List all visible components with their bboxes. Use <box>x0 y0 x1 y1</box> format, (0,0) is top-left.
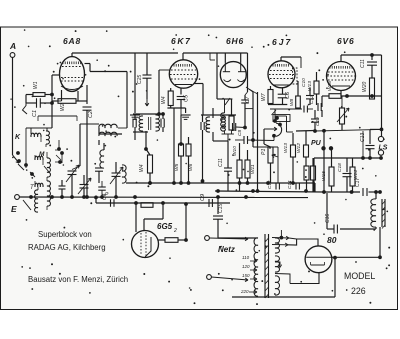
wire x52 vertical <box>51 75 53 128</box>
capacitor C5 <box>180 88 182 95</box>
core hatching <box>265 238 269 242</box>
svg-text:C14: C14 <box>287 180 292 189</box>
terminal LS1 <box>378 136 383 141</box>
svg-text:6K7: 6K7 <box>171 36 191 46</box>
resistor W11m <box>245 160 250 178</box>
tube 80 <box>305 246 332 273</box>
capacitor C11m <box>227 145 229 168</box>
svg-text:W11: W11 <box>250 164 256 174</box>
wire 6V6 top <box>340 55 342 62</box>
svg-text:C5: C5 <box>184 94 190 102</box>
svg-text:6A8: 6A8 <box>63 36 81 46</box>
volume pot P1 <box>268 147 273 163</box>
transformer sec1 <box>275 238 280 253</box>
svg-text:MODEL: MODEL <box>344 271 375 281</box>
wire bus E y197 <box>20 196 309 199</box>
svg-text:6H6: 6H6 <box>226 36 244 46</box>
wire 6H6 bottom U <box>217 98 232 100</box>
svg-text:C6: C6 <box>285 91 291 99</box>
svg-text:110: 110 <box>242 255 250 260</box>
switch 6H6 <box>225 98 230 105</box>
IF2 cap right <box>232 123 234 131</box>
svg-text:P1: P1 <box>261 149 267 155</box>
wire ls stub <box>380 155 382 158</box>
coil L1b <box>46 128 48 131</box>
wire 6J7 top cap <box>280 57 282 61</box>
svg-text:C10: C10 <box>301 78 307 87</box>
svg-text:C12: C12 <box>309 95 315 104</box>
capacitor C9 <box>110 199 112 207</box>
variable capacitor CV1b <box>80 184 89 186</box>
capacitor C13m <box>275 183 277 190</box>
wire diode bottoms <box>224 131 226 134</box>
capacitor C16 <box>375 227 377 229</box>
svg-text:6J7: 6J7 <box>272 37 292 47</box>
wire y147 <box>253 146 278 148</box>
capacitor C11 <box>371 55 373 60</box>
capacitor C12 <box>317 103 319 111</box>
wire IF2 right down <box>212 132 214 141</box>
choke core <box>381 199 383 227</box>
svg-text:W14: W14 <box>353 170 359 180</box>
resistor W4k <box>170 88 172 91</box>
svg-text:C11: C11 <box>218 158 224 167</box>
coil L2a <box>35 156 43 160</box>
osc coil b <box>99 132 117 136</box>
svg-text:W12: W12 <box>296 143 302 153</box>
switch at E <box>23 200 31 210</box>
svg-text:W8: W8 <box>289 98 295 106</box>
transformer primary <box>254 238 258 296</box>
svg-text:150: 150 <box>242 273 250 278</box>
junction dots extra <box>149 182 152 185</box>
PU terminals <box>322 147 325 150</box>
coil L1a <box>26 127 52 129</box>
resistor W13j <box>316 72 318 81</box>
wire choke down <box>379 227 381 257</box>
capacitor C7 <box>245 92 248 95</box>
wire bus right y192 <box>324 191 360 193</box>
IF1 coil left <box>139 116 143 131</box>
tube 6V6 <box>327 62 356 91</box>
terminal Netz1 <box>205 236 210 241</box>
svg-text:C7: C7 <box>245 96 251 103</box>
capacitor C2 <box>86 85 88 104</box>
svg-text:C18: C18 <box>337 163 343 172</box>
wire 6K7 screen <box>194 83 203 85</box>
IF1 cap left <box>132 119 134 128</box>
capacitor C10 <box>306 95 314 97</box>
resistor W7 <box>270 86 272 90</box>
IF2 frame <box>201 114 236 116</box>
switch ticks <box>44 166 49 172</box>
IF1 core <box>148 117 150 130</box>
osc coil a <box>99 124 117 128</box>
wire x59 vert <box>58 140 60 150</box>
sec feed stub <box>280 230 282 237</box>
wire 6K7 top cap <box>182 53 184 60</box>
band switch contacts <box>17 152 20 155</box>
terminal LS2 <box>378 150 383 155</box>
svg-text:C2: C2 <box>88 111 94 118</box>
junction dots bus <box>30 196 33 199</box>
wire top rail y124 <box>80 123 99 125</box>
svg-text:226: 226 <box>351 286 366 296</box>
osc coil c <box>100 150 104 168</box>
wire bus3 y203 <box>96 202 230 204</box>
trimmer cap <box>59 185 66 187</box>
svg-text:Bausatz von F. Menzi, Zürich: Bausatz von F. Menzi, Zürich <box>28 275 128 284</box>
resistor W16 <box>329 94 341 99</box>
wire to LS node <box>315 129 382 131</box>
tube 6A8 <box>60 57 85 92</box>
choke coil <box>371 199 376 227</box>
wire M links <box>55 149 59 151</box>
transformer sec2 <box>275 256 280 272</box>
wire 6A8 grid2 <box>85 63 91 65</box>
wire 6K7 cath down <box>173 108 175 183</box>
svg-text:C11: C11 <box>360 59 366 68</box>
svg-text:W5: W5 <box>174 163 180 171</box>
wire 80 plate right <box>332 256 380 258</box>
svg-text:W1: W1 <box>33 81 39 89</box>
padder cap <box>95 167 103 169</box>
svg-text:W15: W15 <box>321 171 327 181</box>
svg-text:PU: PU <box>311 140 322 147</box>
variable capacitor CV2 <box>112 172 121 174</box>
wire 80 heater <box>290 273 319 284</box>
svg-text:2: 2 <box>173 228 177 234</box>
svg-text:A: A <box>9 41 16 51</box>
switch wiper antenna <box>13 155 20 163</box>
capacitor Cp <box>98 186 106 188</box>
capacitor Ck <box>303 106 305 113</box>
capacitor C13 <box>370 128 382 130</box>
IF2 coil left <box>206 117 210 132</box>
wire 6G5 right <box>185 204 187 240</box>
vertical ground x135 <box>134 53 136 113</box>
wire IF2 bottoms <box>180 115 182 144</box>
resistor W12 <box>304 145 309 157</box>
capacitor Cavc <box>243 136 245 144</box>
ground g2 <box>181 114 191 116</box>
svg-text:LS: LS <box>379 145 388 152</box>
svg-text:C1: C1 <box>32 110 38 117</box>
resistor W10 <box>141 203 153 208</box>
svg-text:C16: C16 <box>325 214 331 223</box>
svg-text:6V6: 6V6 <box>337 36 355 46</box>
wire 6A8 plate top <box>71 53 73 57</box>
capacitor C25 <box>146 53 148 75</box>
wire osc joins <box>99 133 122 135</box>
wire 6G5 grid <box>135 203 137 232</box>
wire pu node <box>314 130 317 133</box>
coil L3b <box>47 181 50 206</box>
wire K rail up <box>25 128 27 140</box>
IF1 cap right <box>160 119 162 128</box>
variable capacitor CV1 <box>68 170 77 172</box>
svg-text:220: 220 <box>240 289 249 294</box>
tube 6J7 <box>268 61 295 88</box>
svg-text:W2: W2 <box>60 103 66 111</box>
capacitor C15 <box>217 197 219 214</box>
resistor W4 <box>148 155 153 173</box>
capacitor C8 <box>208 199 210 207</box>
svg-text:Superblock von: Superblock von <box>38 230 92 239</box>
wire IF1 left down <box>134 132 136 140</box>
svg-text:W16: W16 <box>327 81 333 91</box>
sec heater wire <box>275 274 290 284</box>
tube 6K7 <box>169 60 197 88</box>
IF2 cap left <box>200 122 202 130</box>
osc coil d <box>122 165 126 183</box>
wire bus mid y191 <box>215 191 324 192</box>
tone pot <box>340 108 345 124</box>
wire top bus 6k7-6h6 <box>183 52 248 54</box>
sec 6v tap <box>275 262 280 265</box>
resistor W14 <box>352 158 354 167</box>
svg-text:80: 80 <box>327 235 337 245</box>
ground g1 <box>130 114 140 116</box>
wire 6G5 feed <box>162 202 165 205</box>
wire cluster top y158 <box>314 157 381 159</box>
wire antenna down <box>12 58 14 156</box>
svg-text:W4: W4 <box>161 96 167 104</box>
resistor W10m <box>237 160 242 178</box>
capacitor C14m <box>295 183 297 190</box>
capacitor C19 <box>311 118 319 120</box>
tube 6G5 <box>132 231 159 258</box>
svg-text:W13: W13 <box>283 143 289 153</box>
capacitor C18 <box>346 158 348 172</box>
wire 6J7 cath join <box>268 104 287 106</box>
wire right tall <box>381 55 383 136</box>
svg-text:6G5: 6G5 <box>157 222 173 231</box>
svg-text:W20: W20 <box>362 82 368 93</box>
resistor 6G5 grid <box>159 239 166 241</box>
resistor W13 <box>291 145 296 157</box>
terminal Netz2 <box>207 275 212 280</box>
svg-text:W4: W4 <box>139 164 145 172</box>
wire 6H6 tops <box>216 53 218 99</box>
coil L2b <box>47 158 50 177</box>
svg-text:C15: C15 <box>218 204 224 213</box>
capacitor C17 series <box>362 188 364 196</box>
wire arc ties <box>273 136 275 141</box>
wave switch arrow <box>264 128 277 130</box>
wire avc verticals <box>252 92 254 147</box>
resistor W20 <box>370 78 375 99</box>
terminal E <box>15 195 20 200</box>
switch box <box>273 115 290 122</box>
wire 6J7 cath <box>270 108 302 110</box>
IF1 frame wires <box>133 113 163 115</box>
svg-text:C25: C25 <box>137 75 143 84</box>
svg-text:120: 120 <box>242 264 250 269</box>
wire bus2 y183 <box>126 182 315 184</box>
resistor W22 <box>305 159 307 166</box>
grid shield dashed <box>293 68 298 84</box>
wire 6K7 cath join <box>167 107 185 109</box>
svg-text:W7: W7 <box>261 93 267 101</box>
tube 6H6 <box>220 62 246 88</box>
wire pu verts <box>323 132 325 192</box>
wire IF1 down W4 <box>145 131 147 149</box>
svg-text:E: E <box>11 204 17 214</box>
wire 80 plate left <box>288 239 318 246</box>
capacitor C1 <box>26 102 36 104</box>
capacitor C6 <box>282 88 284 95</box>
svg-text:RADAG AG, Kilchberg: RADAG AG, Kilchberg <box>28 243 106 252</box>
wire left branch <box>25 95 27 104</box>
wire w14 feed <box>362 131 364 158</box>
transformer sec3 <box>275 276 280 295</box>
screen resistor W8 <box>297 81 299 96</box>
choke core hatching <box>382 201 385 205</box>
wire 6K7 grid left <box>159 69 170 71</box>
wire C7 tap <box>245 108 253 110</box>
svg-text:C9: C9 <box>200 194 206 201</box>
IF2 coil right <box>222 116 225 131</box>
resistor W15 <box>329 167 334 186</box>
sec wires top <box>272 237 289 240</box>
diode load resistor <box>231 99 233 116</box>
sec wires fil <box>272 244 288 246</box>
wave switch arc <box>274 109 276 120</box>
resistor W21 <box>311 166 316 180</box>
svg-text:C8: C8 <box>237 130 243 136</box>
resistor W5 <box>179 144 184 156</box>
transformer core <box>264 234 266 298</box>
resistor W6 <box>186 144 191 156</box>
wire rail y116 <box>38 115 77 117</box>
wire 6A8 bottom pins <box>61 90 63 101</box>
paper speckles <box>11 30 390 305</box>
wire 80 fil ct <box>334 258 336 297</box>
resistor W2 <box>58 99 76 104</box>
wire 6V6 cath <box>340 91 342 97</box>
svg-text:C19: C19 <box>315 117 321 126</box>
wire w16 left <box>322 95 329 97</box>
diode load coil <box>224 99 226 113</box>
junction bus dots <box>323 191 326 194</box>
IF1 coil right <box>156 115 160 131</box>
coil L3c <box>35 190 38 212</box>
